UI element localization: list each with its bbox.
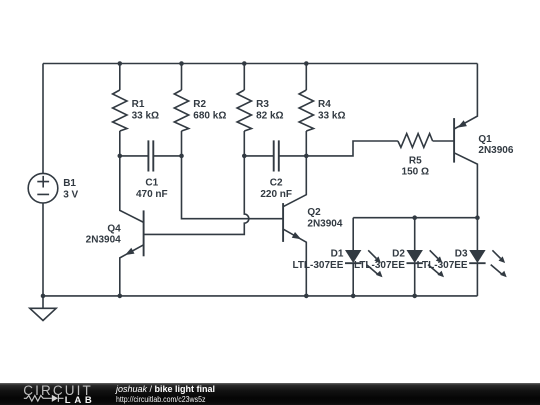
node: C1 left [118,154,123,159]
wire: R2 bottom to Q2 base [182,156,284,219]
label R2 680 k [193,99,226,122]
label D3 LTL-307EE [417,248,468,271]
svg-text:R2: R2 [193,99,206,110]
wire: bottom ground rail [43,295,477,297]
node: C2 left [242,154,247,159]
battery B1 [28,173,58,203]
label Q2 2N3904 [307,207,342,229]
svg-text:470 nF: 470 nF [136,189,168,200]
transistor Q1 PNP [454,64,477,218]
svg-text:2N3904: 2N3904 [307,218,342,229]
label C2 220 nF [260,177,292,200]
node: ground rail battery [41,294,46,299]
svg-text:3 V: 3 V [63,190,78,201]
label R5 150 ohm [402,156,429,178]
svg-text:R5: R5 [409,156,422,167]
svg-text:R1: R1 [132,99,145,110]
node: top rail R4 [304,61,309,66]
svg-text:LTL-307EE: LTL-307EE [292,260,343,271]
svg-text:LTL-307EE: LTL-307EE [417,260,468,271]
svg-text:Q1: Q1 [478,134,492,145]
resistor R4 [299,64,313,156]
node: top rail R2 [179,61,184,66]
node: ground rail Q4 [118,294,123,299]
svg-text:LAB: LAB [65,395,93,405]
svg-text:R3: R3 [256,99,269,110]
svg-text:C1: C1 [145,177,158,188]
svg-text:R4: R4 [318,99,331,110]
node: ground rail D2 [412,294,417,299]
wire: LED top rail [353,217,477,219]
footer bar [0,383,540,405]
node: top rail R3 [242,61,247,66]
svg-text:D1: D1 [331,248,344,259]
svg-text:C2: C2 [270,177,283,188]
capacitor C1 [120,140,182,171]
label C1 470 nF [136,177,168,200]
label R4 33 k [318,99,345,122]
transistor Q4 NPN [120,156,144,296]
svg-text:2N3906: 2N3906 [478,145,513,156]
svg-text:Q2: Q2 [307,207,321,218]
svg-text:2N3904: 2N3904 [86,235,121,246]
svg-text:Q4: Q4 [107,224,121,235]
wire: ground stub [42,296,44,308]
wire: R3 bottom to Q4 base with hop over crossing [144,156,249,235]
node: LED rail D2 [412,215,417,220]
node: ground rail D1 [351,294,356,299]
svg-text:B1: B1 [63,178,76,189]
footer meta text [116,385,218,404]
wire: top supply rail [43,63,477,65]
wire: R5 to Q1 base [433,140,455,142]
CircuitLab logo [0,383,540,405]
svg-text:33 kΩ: 33 kΩ [318,111,345,122]
LED D2 [407,218,445,296]
label R3 82 k [256,99,283,122]
transistor Q2 NPN [283,156,306,296]
svg-text:D2: D2 [392,248,405,259]
svg-text:220 nF: 220 nF [260,189,292,200]
label Q1 2N3906 [478,134,513,156]
svg-text:LTL-307EE: LTL-307EE [354,260,405,271]
wire: battery bottom lead [42,203,44,296]
node: ground rail Q2 [304,294,309,299]
svg-text:82 kΩ: 82 kΩ [256,111,283,122]
node: C2 right [304,154,309,159]
label D1 LTL-307EE [292,248,343,271]
label Q4 2N3904 [86,224,121,246]
resistor R1 [113,64,127,156]
svg-text:680 kΩ: 680 kΩ [193,111,226,122]
wire: battery top lead [42,64,44,174]
svg-text:150 Ω: 150 Ω [402,167,429,178]
ground symbol [30,308,56,320]
node: top rail R1 [118,61,123,66]
node: C1 right [179,154,184,159]
resistor R2 [174,64,188,156]
svg-text:33 kΩ: 33 kΩ [132,111,159,122]
wire: R4 bottom to R5 [306,141,398,156]
LED D3 [469,218,507,296]
node: LED rail D3 [475,215,480,220]
resistor R5 [398,134,433,148]
label R1 33 k [132,99,159,122]
label B1 3 V [63,178,78,201]
svg-text:D3: D3 [455,248,468,259]
resistor R3 [237,64,251,156]
capacitor C2 [244,140,306,171]
LED D1 [345,218,383,296]
label D2 LTL-307EE [354,248,405,271]
